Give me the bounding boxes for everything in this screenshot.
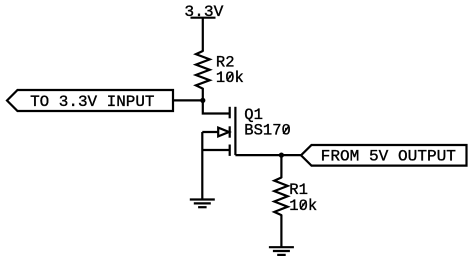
wire source to ground [201, 150, 203, 199]
resistor R2 [196, 51, 210, 89]
channel segment middle [229, 126, 231, 137]
svg-text:3.3V: 3.3V [184, 3, 224, 21]
channel segment bottom [229, 145, 231, 156]
svg-text:TO 3.3V INPUT: TO 3.3V INPUT [30, 93, 154, 111]
wire power to R2 [202, 18, 204, 51]
source lead [202, 149, 229, 151]
wire node A to drain [203, 100, 230, 113]
body to source wire [201, 132, 203, 150]
body lead [202, 131, 218, 133]
global label TO 3.3V INPUT [7, 90, 173, 111]
power symbol 3.3V [191, 17, 216, 19]
svg-text:BS170: BS170 [244, 122, 291, 140]
gate bar [234, 107, 236, 155]
wire label to node A [173, 99, 203, 101]
resistor R1 [274, 178, 287, 216]
transistor Q1 BS170 [202, 107, 235, 156]
ground left [190, 200, 215, 208]
junction node B [279, 153, 284, 158]
wire gate to node B [235, 154, 301, 156]
body diode arrow [218, 128, 229, 137]
wire R2 to node A [202, 89, 204, 101]
global label FROM 5V OUTPUT [301, 145, 467, 166]
ground right [269, 247, 294, 255]
channel segment top [229, 107, 231, 119]
junction node A [200, 98, 205, 103]
wire R1 to ground [280, 215, 282, 247]
svg-text:FROM 5V OUTPUT: FROM 5V OUTPUT [321, 148, 456, 166]
wire node B to R1 [280, 155, 282, 177]
